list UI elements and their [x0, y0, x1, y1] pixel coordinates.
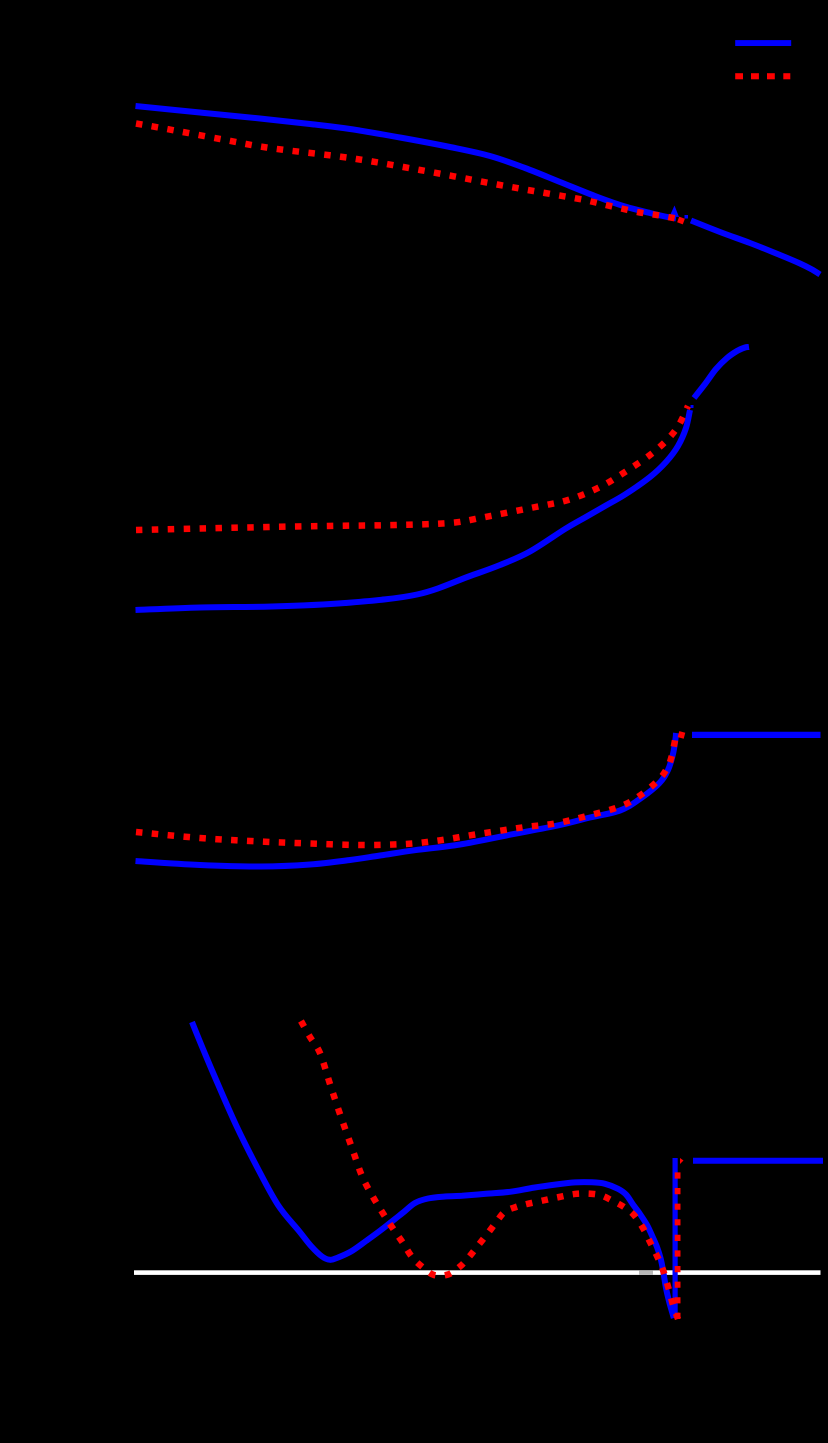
panel 1: red dotted curve: [136, 124, 676, 219]
panel 3: blue solid curve: [136, 733, 677, 867]
panel 2: red dotted curve: [136, 406, 688, 530]
panel 4: red dot near top of jump: [680, 1158, 684, 1164]
panel 3: flat blue line after transition: [692, 732, 821, 738]
panel 4: white horizontal baseline: [134, 1270, 821, 1275]
panel 3: last red dot at top of climb: [678, 731, 686, 739]
panel 1: blue solid curve (after transition): [691, 221, 820, 275]
panel 2: tiny blue speck in transition gap: [691, 405, 694, 408]
panel 4: red dotted curve: [301, 1021, 678, 1319]
panel 1: tiny blue speck in transition gap: [685, 215, 689, 219]
panel 4: blue vertical jump line: [672, 1158, 677, 1318]
panel 4: blue solid curve: [192, 1022, 674, 1318]
panel 3: red dotted curve: [136, 733, 676, 845]
legend: red dotted sample line: [735, 73, 790, 79]
panel 4: red vertical dotted jump line: [675, 1163, 681, 1319]
panel 2: blue solid curve (upper branch after transition): [694, 347, 749, 398]
panel 1: blue transition spike marker: [670, 206, 680, 218]
panel 4: grey mark on baseline: [639, 1270, 653, 1275]
panel 2: blue solid curve (lower branch): [136, 410, 691, 610]
panel 4: flat blue line after transition: [693, 1158, 823, 1164]
panel 1: blue solid curve (before transition kink): [136, 106, 677, 219]
legend: blue solid sample line: [735, 40, 791, 46]
panel 1: last red dot after gap: [677, 217, 685, 225]
